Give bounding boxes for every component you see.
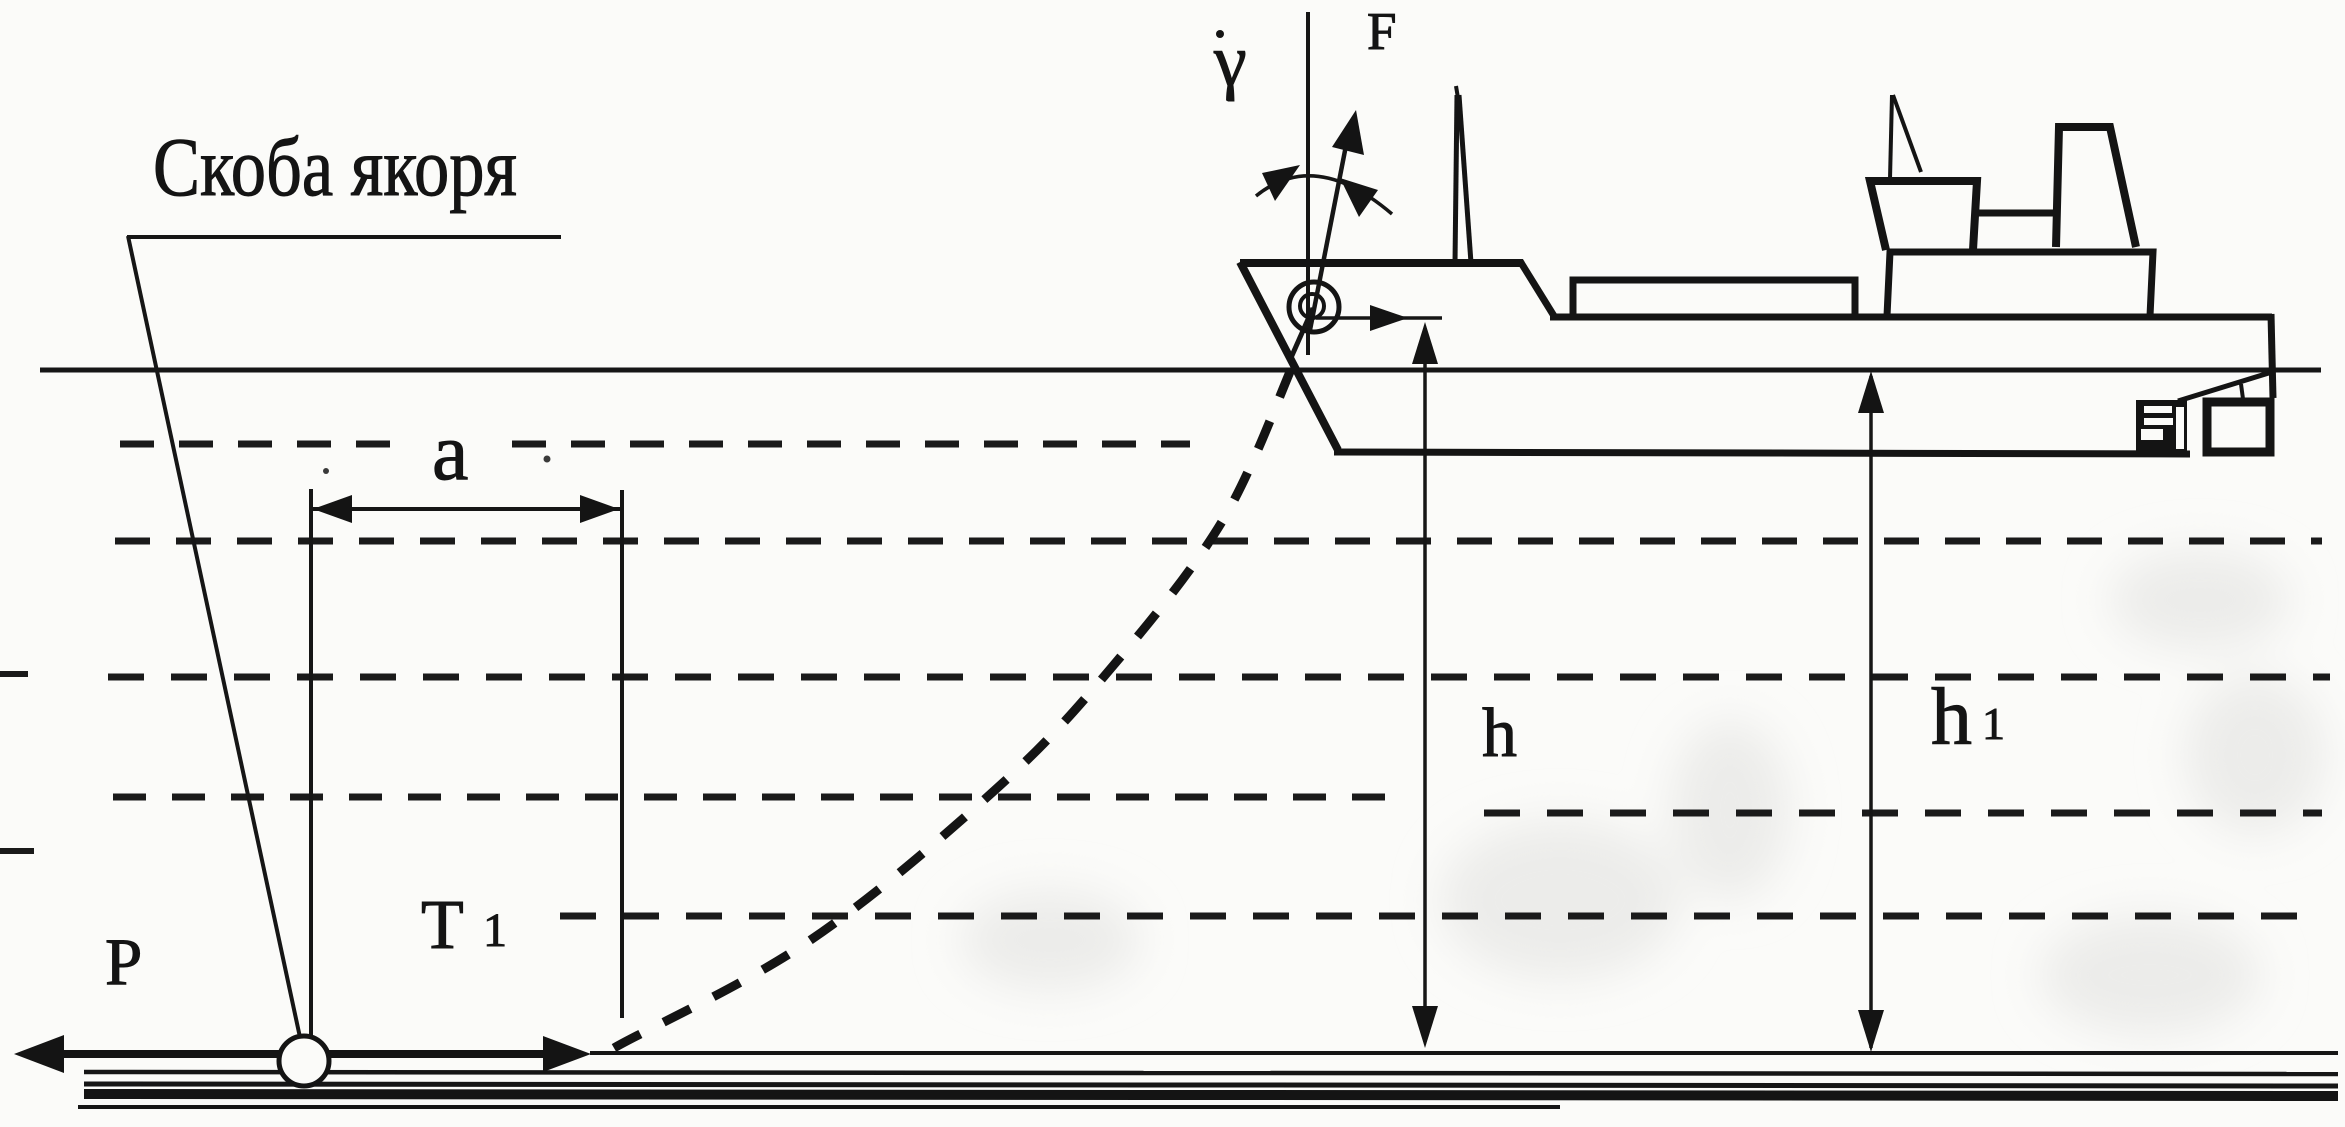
foremast [1455,95,1457,263]
stern grate box [2136,400,2187,452]
seabed line right of arrow [590,1051,2338,1055]
anchor chain catenary dashed [614,365,1293,1048]
seabed chain force line [30,1050,575,1058]
svg-text:1: 1 [1982,698,2005,749]
svg-text:γ: γ [1213,20,1247,102]
superstructure block [1887,252,2153,316]
dimension h1 top arrowhead [1858,371,1884,413]
seabed line 3 [84,1084,2338,1086]
dimension a extension line right [620,490,624,1018]
deckhouse between wheelhouse and funnel [1977,210,2056,217]
stern slant tick [2241,384,2243,399]
keel [1334,452,2190,454]
svg-text:a: a [432,406,468,497]
seabed line 2 [84,1072,2338,1074]
dashed row D left [113,794,1401,801]
dimension h1 line [1869,376,1873,1048]
dimension a left arrowhead [313,495,352,523]
cargo hatch [1573,280,1855,316]
main mast [1890,95,1892,179]
bow stem slant [1240,262,1338,450]
svg-text:h: h [1482,695,1517,772]
leader slant to anchor shackle [128,236,301,1042]
dimension a extension line left [309,489,313,1038]
stern counter slant [2178,372,2272,401]
stern gear box [2207,402,2270,452]
svg-text:P: P [105,925,142,999]
svg-text:Скоба якоря: Скоба якоря [153,121,517,214]
force P left arrowhead [14,1035,64,1073]
dashed row D right [1484,810,2322,817]
dashed row C [108,674,2330,681]
hawse pipe outer circle [1289,282,1339,332]
dashed waterplane row A [120,441,395,448]
deck step slant [1520,261,1554,316]
dash fragment left edge [0,848,34,854]
dimension h bottom arrowhead [1412,1006,1438,1048]
yaw angle arc [1256,176,1392,214]
chain segment below hawse [1290,308,1313,360]
label gamma dot [1216,30,1224,38]
svg-text:T: T [421,887,464,964]
dimension h line [1423,328,1427,1042]
yaw arc right arrowhead [1340,178,1378,217]
vertical reference line at bow [1306,12,1310,355]
stern edge [2271,314,2273,398]
paper specks [323,468,329,474]
dash fragment left edge row C [0,671,28,677]
seabed line 5 [78,1105,1560,1109]
dashed row B [115,538,2322,545]
waterline [40,368,2321,373]
horizontal arrow at hawse [1316,316,1442,320]
hawse pipe inner circle [1300,294,1324,318]
seabed thick line [84,1094,2338,1096]
chain tension direction arrow F [1310,125,1350,330]
svg-text:h: h [1931,671,1972,762]
dimension h1 bottom arrowhead [1858,1010,1884,1052]
dashed row E [560,913,2320,920]
funnel [2056,127,2136,247]
anchor shackle circle [279,1036,329,1086]
wheelhouse [1870,181,1977,250]
yaw arc left arrowhead [1262,165,1300,201]
main deck [1550,314,2272,321]
svg-text:F: F [1367,3,1396,61]
ship hull forecastle deck [1240,259,1523,267]
dimension a line [313,507,620,511]
dimension h top arrowhead [1412,322,1438,364]
dimension a right arrowhead [580,495,619,523]
chain tension right arrowhead [543,1036,591,1072]
svg-text:1: 1 [483,904,507,957]
leader line horizontal [127,235,561,239]
